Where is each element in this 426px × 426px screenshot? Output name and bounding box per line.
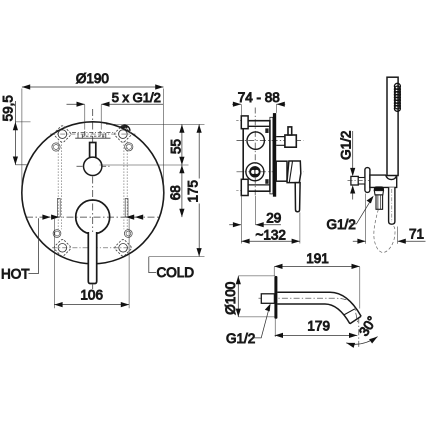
nipple centerline [348, 180, 370, 182]
plate outline circle with top bump [22, 122, 164, 264]
handle stem [88, 232, 96, 284]
side inlet boss left [57, 199, 60, 217]
slot hidden line [82, 135, 105, 137]
diverter stem [288, 127, 292, 135]
slot centerline [72, 132, 114, 134]
dim 191 [274, 266, 360, 308]
svg-text:179: 179 [307, 319, 330, 334]
dim 106 [54, 219, 129, 309]
centerline horizontal upper circle [77, 165, 110, 167]
diverter pipe [276, 137, 285, 146]
centerline horizontal through handle [26, 216, 161, 218]
wand lower grip [389, 187, 395, 224]
dim 175 [198, 124, 200, 256]
lever wedge line [289, 161, 292, 182]
mounting lug top-right [114, 125, 133, 144]
svg-text:71: 71 [409, 227, 424, 242]
hidden edge lines left [58, 142, 61, 230]
lever arm [295, 183, 300, 212]
upper port circle [247, 132, 264, 149]
shower wand body [387, 77, 398, 175]
dim 71 [353, 194, 426, 244]
mounting lug bottom-left [53, 239, 72, 258]
spout tube top [277, 292, 361, 316]
dim 55 / 68 [181, 124, 183, 217]
centerline vertical body [254, 108, 256, 196]
dim 59,5 [15, 101, 30, 165]
handle lever body [287, 161, 301, 183]
hose loop [374, 210, 395, 253]
cartridge stem upper [90, 143, 96, 159]
dim 74 - 88 [232, 104, 285, 116]
hose nut cap [374, 186, 384, 190]
ear top [241, 116, 248, 129]
supply nipple pipe [358, 178, 365, 185]
svg-text:HOT: HOT [1, 267, 30, 282]
lug screw bottom-left [58, 244, 67, 253]
lug screw top-right [119, 130, 128, 139]
hidden line bottom lug row [52, 247, 133, 249]
hidden edge lines right [124, 142, 127, 230]
svg-text:G1/2: G1/2 [338, 131, 353, 160]
dim Ø100 [238, 276, 275, 317]
cartridge slot holes [251, 170, 255, 174]
dim 179 [275, 319, 358, 337]
cartridge nut disc [249, 166, 260, 177]
outlet tip face [350, 316, 361, 324]
holder wall flange [365, 168, 370, 193]
svg-text:COLD: COLD [157, 265, 195, 280]
svg-text:5 x G1/2: 5 x G1/2 [112, 90, 161, 105]
svg-text:175: 175 [186, 180, 201, 203]
ear centerline ticks [236, 120, 240, 190]
diverter knob [285, 135, 296, 147]
port bottom-right [124, 230, 132, 238]
spout wall flange [274, 276, 277, 319]
top slot rail [75, 131, 110, 138]
centerline diverter axis [237, 140, 304, 142]
svg-text:55: 55 [168, 139, 183, 154]
centerline handle axis [237, 171, 304, 173]
hose spring coil [394, 83, 400, 111]
centerline vertical [92, 109, 94, 289]
supply nipple square [351, 176, 358, 185]
mounting lug bottom-right [114, 239, 133, 258]
svg-text:G1/2: G1/2 [327, 217, 356, 232]
spout tube bottom [277, 304, 350, 324]
right edge arrows [126, 215, 143, 220]
upper circle (diverter hole) [84, 157, 102, 175]
inlet nipple [261, 294, 274, 304]
aerator joint line [344, 309, 355, 315]
svg-text:Ø190: Ø190 [76, 71, 109, 86]
svg-text:68: 68 [168, 185, 183, 200]
side inlet boss right [125, 199, 128, 217]
back flange [270, 117, 273, 194]
holder body [370, 175, 397, 187]
wall plate edge-on [273, 113, 276, 197]
dim 5 x G1/2 [67, 104, 164, 129]
ear bottom [241, 179, 248, 195]
dim Ø190 [22, 87, 164, 198]
angle arc 30deg [346, 337, 377, 345]
centerline top lug row [50, 133, 136, 135]
svg-text:G1/2: G1/2 [226, 331, 255, 346]
handle adapter [276, 161, 287, 181]
svg-text:59,5: 59,5 [1, 95, 16, 121]
lug screw bulge top-right [120, 125, 130, 131]
svg-text:191: 191 [306, 251, 329, 266]
inner panel lines [248, 126, 270, 185]
lower cartridge circle [246, 163, 264, 181]
outlet vertical reference [358, 318, 360, 349]
dim witness lines right [100, 124, 205, 256]
hose nut taper [374, 191, 383, 195]
svg-text:106: 106 [80, 287, 103, 302]
lug screw top-left [58, 130, 67, 139]
svg-text:Ø100: Ø100 [223, 282, 238, 315]
lug screw bottom-right [119, 244, 128, 253]
svg-text:~132: ~132 [255, 228, 285, 243]
port top-left [52, 143, 60, 151]
hose end fitting [376, 195, 383, 209]
clip top [265, 128, 268, 133]
mounting lug top-left [53, 125, 72, 144]
lower circle (cartridge hole) [76, 200, 110, 234]
spout centerline [259, 298, 358, 324]
clip bottom [265, 179, 268, 184]
dim 29 [229, 196, 281, 244]
wand grip centerline [391, 189, 393, 222]
port top-right [125, 143, 133, 151]
svg-text:74 - 88: 74 - 88 [238, 90, 280, 105]
dim ~132 [241, 212, 300, 243]
svg-text:29: 29 [266, 210, 281, 225]
body box [243, 121, 270, 192]
left edge arrows [42, 215, 59, 220]
port bottom-left [53, 230, 61, 238]
